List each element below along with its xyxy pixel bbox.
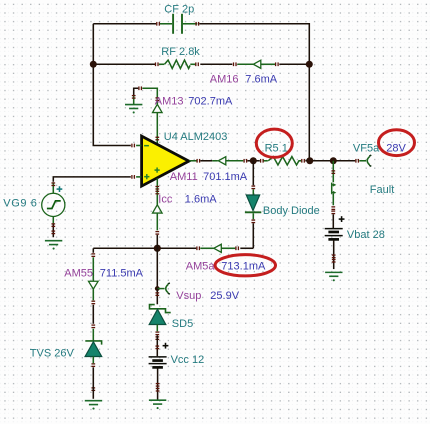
wire: SD5 to Vcc battery	[156, 335, 158, 356]
svg-text:Body Diode: Body Diode	[263, 205, 320, 217]
diode TVS cathode bar	[85, 341, 101, 345]
op-amp V+ supply marker	[155, 167, 160, 172]
diode TVS triangle	[85, 342, 102, 357]
capacitor CF plates	[173, 14, 182, 34]
ground (Vbat)	[325, 272, 342, 281]
svg-text:AM16: AM16	[210, 73, 239, 85]
svg-text:Fault: Fault	[370, 184, 394, 196]
svg-text:713.1mA: 713.1mA	[221, 260, 266, 272]
annotation ellipse around 713.1mA	[215, 255, 275, 276]
wire: Vbat battery to ground	[333, 240, 335, 269]
VF5a pin ticks	[355, 159, 359, 163]
wire: feedback vertical x=93 down to inverting input	[93, 24, 131, 146]
svg-text:VG9 6: VG9 6	[3, 197, 37, 209]
Vcc pin ticks	[155, 345, 159, 349]
wire: RF horizontal net y=64	[93, 63, 309, 65]
resistor RF leads	[159, 63, 197, 65]
ammeter AM13 lead lower / op-amp V+ pin lead	[156, 113, 158, 145]
wire: to battery Vbat	[332, 214, 334, 228]
resistor R5 zigzag	[268, 157, 299, 165]
ammeter AM11 arrow	[218, 157, 226, 165]
resistor R5 leads	[263, 160, 301, 162]
wire: supply net down to junction	[156, 235, 158, 249]
wire: Fault jumper to Vbat	[332, 194, 334, 205]
op-amp input pin ticks	[131, 144, 135, 179]
pin VF5a arc	[367, 157, 369, 165]
svg-text:28V: 28V	[386, 142, 406, 154]
AM55 pin ticks	[91, 253, 95, 304]
op-amp V- supply lead	[156, 178, 158, 205]
wire: top feedback horizontal (CF net)	[93, 24, 309, 65]
Vcc ground pin ticks	[156, 383, 160, 392]
resistor RF zigzag	[165, 60, 191, 68]
Icc pin ticks	[155, 186, 159, 235]
VG9 pin ticks	[51, 182, 55, 234]
wire: VG9 bottom to ground	[52, 223, 54, 237]
svg-text:RF 2.8k: RF 2.8k	[161, 46, 200, 58]
annotation ellipse around 28V	[379, 130, 415, 156]
ground (Vcc)	[149, 400, 166, 409]
body diode lead bottom	[252, 213, 254, 219]
ground (TVS)	[85, 401, 102, 410]
wire: body diode branch bottom	[252, 223, 254, 248]
svg-text:AM5a: AM5a	[186, 260, 216, 272]
wire: lower horizontal net y=248	[93, 247, 253, 249]
svg-text:702.7mA: 702.7mA	[188, 95, 233, 107]
svg-text:AM11: AM11	[170, 171, 198, 183]
svg-text:TVS 26V: TVS 26V	[30, 347, 75, 359]
diode SD5 cathode bar (schottky)	[150, 305, 171, 313]
wire: Vbat branch from output junction	[332, 161, 334, 183]
ammeter AM16 leads	[237, 63, 275, 65]
svg-text:Vbat 28: Vbat 28	[347, 229, 385, 241]
ammeter Icc lead bottom	[156, 213, 158, 230]
svg-text:Vsup: Vsup	[176, 290, 201, 302]
ground (AM13 branch)	[125, 105, 142, 114]
svg-text:R5 1: R5 1	[265, 143, 288, 155]
pin Vsup serifs	[168, 283, 170, 294]
ammeter AM55 lead bottom	[92, 289, 94, 300]
node: junction (309,64)	[306, 61, 313, 68]
body diode pin ticks	[251, 185, 255, 223]
op-amp non-inverting marker	[144, 174, 149, 179]
node: Vsup junction (157,288.3)	[155, 286, 160, 291]
ammeter AM13 lead upper	[142, 88, 157, 104]
body diode lead top	[252, 189, 254, 195]
voltage source VG9 circle	[42, 193, 65, 216]
pin VF5a serifs	[369, 155, 371, 166]
Vbat pin ticks	[331, 170, 335, 214]
diode SD5 triangle	[149, 309, 166, 324]
svg-text:Vcc 12: Vcc 12	[171, 354, 205, 366]
resistor RF pin ticks	[155, 62, 199, 66]
pin Vsup lead	[157, 288, 164, 290]
svg-text:711.5mA: 711.5mA	[100, 267, 144, 279]
voltage source VG9 wire top	[53, 177, 131, 182]
voltage source VG9 lead top	[52, 182, 54, 193]
ammeter AM55 arrow	[89, 281, 99, 289]
node: feedback junction (93,64)	[90, 61, 97, 68]
ammeter AM16 pin ticks	[233, 62, 279, 66]
wire: Vcc battery to ground	[157, 368, 159, 400]
svg-text:CF 2p: CF 2p	[164, 3, 194, 15]
battery Vcc plates	[149, 357, 167, 368]
wire: Vsup node to SD5	[156, 289, 158, 305]
node: junction (157,248)	[154, 245, 161, 252]
svg-text:25.9V: 25.9V	[210, 290, 239, 302]
node: output junction (309.5,160.5)	[306, 157, 313, 164]
TVS lead bottom	[92, 356, 94, 363]
wire: corner to AM13	[134, 88, 139, 96]
wire: output net	[200, 160, 355, 162]
op-amp U4 ALM2403 body	[142, 136, 189, 186]
annotation ellipse around R5 1	[256, 129, 292, 157]
svg-text:1.6mA: 1.6mA	[185, 193, 217, 205]
voltage source VG9 waveform	[47, 201, 61, 209]
TVS pin ticks	[91, 324, 95, 391]
svg-text:AM55: AM55	[64, 267, 93, 279]
wire: ground stub to corner	[133, 96, 135, 105]
capacitor CF pin ticks	[156, 22, 199, 26]
ammeter AM11 leads	[212, 160, 243, 162]
ammeter AM55 lead top	[92, 257, 94, 281]
voltage source VG9 lead bottom	[52, 216, 54, 223]
ammeter AM5a leads	[200, 247, 235, 249]
wire: left branch down from corner (93,248)	[92, 248, 94, 253]
svg-text:Icc: Icc	[158, 193, 173, 205]
body diode cathode bar	[245, 211, 261, 213]
wire: right vertical x=309 from node down to output net	[308, 64, 310, 161]
ammeter AM5a pin ticks	[196, 246, 239, 250]
resistor R5 pin ticks	[260, 159, 305, 163]
VF5a lead	[359, 160, 366, 162]
svg-text:VF5a: VF5a	[353, 142, 380, 154]
capacitor CF leads	[159, 23, 197, 25]
SD5 pin ticks	[155, 292, 159, 340]
svg-text:701.1mA: 701.1mA	[203, 171, 248, 183]
ammeter AM13 arrow	[153, 104, 163, 112]
battery Vcc plus marker	[163, 343, 169, 349]
svg-text:AM13: AM13	[155, 95, 184, 107]
TVS lead top	[92, 329, 94, 341]
ammeter Icc arrow	[153, 205, 163, 213]
svg-text:U4 ALM2403: U4 ALM2403	[164, 131, 228, 143]
body diode triangle	[246, 195, 259, 211]
wire: middle branch junction down	[156, 248, 158, 288]
ammeter AM5a arrow	[214, 244, 222, 252]
battery Vbat plus marker	[339, 216, 345, 222]
ammeter AM16 arrow	[253, 60, 260, 68]
node: output junction at Vbat branch (333,160.5)	[330, 157, 337, 164]
svg-text:7.6mA: 7.6mA	[245, 73, 277, 85]
op-amp inverting marker	[144, 145, 149, 147]
wire: AM55 to TVS	[92, 305, 94, 324]
Vbat ground pin ticks	[332, 254, 336, 262]
SD5 lead bottom	[156, 324, 158, 331]
AM13 / ground pin ticks	[132, 86, 159, 140]
output / AM11 pin ticks	[196, 159, 247, 163]
pin Vsup arc	[166, 284, 168, 292]
op-amp input lead stubs	[136, 145, 141, 176]
wire: TVS to ground	[92, 367, 94, 399]
wire: body diode branch top	[252, 161, 254, 186]
voltage source VG9 plus	[57, 186, 63, 192]
battery Vbat plates	[325, 229, 343, 240]
ground (VG9)	[45, 241, 62, 250]
op-amp output lead	[189, 160, 196, 162]
node: output junction at body diode (253,160.5)	[250, 157, 257, 164]
jumper Fault bracket	[332, 183, 337, 195]
svg-text:SD5: SD5	[172, 318, 193, 330]
